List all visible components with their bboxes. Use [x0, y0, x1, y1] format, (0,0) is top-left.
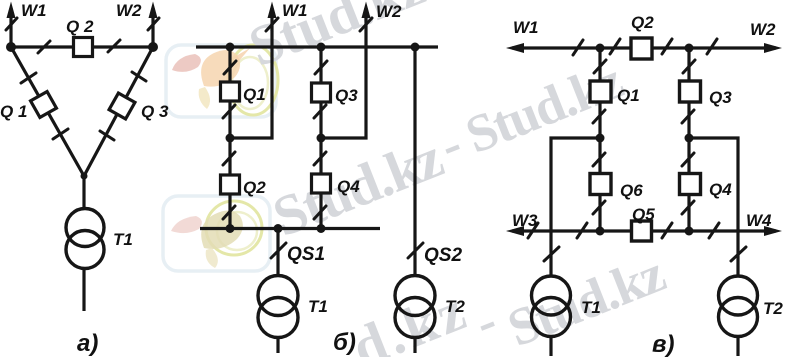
svg-text:Q5: Q5	[632, 205, 655, 224]
arrowhead W1 a	[7, 2, 16, 19]
wire W2 line b	[321, 8, 366, 138]
disconnector slash W2 riser b	[360, 18, 372, 31]
disconnector slash top tie left	[38, 41, 50, 53]
disconnector slash above Q1 v	[594, 60, 606, 73]
disconnector QS2 slash	[408, 243, 423, 258]
node v bottom Q6	[596, 227, 605, 236]
svg-text:T1: T1	[581, 298, 601, 317]
disconnector slash above Q3 b	[315, 61, 327, 74]
svg-text:Q3: Q3	[335, 86, 358, 105]
breaker Q2 b	[221, 175, 240, 194]
disconnector slash top v 3	[662, 39, 672, 54]
wire top bus b	[196, 45, 438, 48]
node a left corner	[6, 42, 16, 52]
wire T2 tail v	[736, 336, 739, 356]
svg-text:QS1: QS1	[287, 244, 325, 265]
disconnector slash above Q2 b	[223, 152, 235, 165]
breaker Q1 b	[221, 82, 240, 101]
arrowhead W1 b	[268, 2, 277, 19]
svg-text:d.kz: d.kz	[344, 278, 478, 357]
disconnector slash top v 2	[610, 39, 620, 54]
svg-text:-: -	[467, 292, 505, 352]
disconnector slash above Q4 v	[682, 153, 694, 166]
disconnector QS1 slash	[271, 243, 286, 258]
svg-text:W1: W1	[21, 1, 47, 20]
svg-text:Q6: Q6	[620, 181, 643, 200]
disconnector slash left diagonal upper	[21, 73, 36, 83]
breaker Q6 v	[590, 174, 611, 195]
watermark logo 1	[166, 45, 278, 117]
disconnector slash bottom v 1	[528, 223, 538, 238]
breaker Q3 a	[109, 93, 135, 119]
disconnector slash below Q3 b	[314, 105, 326, 118]
node v top Q3	[685, 44, 694, 53]
wire Q3Q4 branch v	[687, 48, 690, 231]
arrowhead W1 v	[506, 43, 524, 53]
breaker Q5 v	[632, 221, 652, 241]
svg-text:T2: T2	[763, 299, 783, 318]
wire T1 tail v	[549, 336, 552, 356]
disconnector slash above Q4 b	[314, 152, 326, 165]
breaker Q4 v	[680, 174, 701, 195]
disconnector slash below Q1 b	[223, 105, 235, 118]
disconnector slash bottom v 3	[662, 223, 672, 238]
transformer T1 b	[258, 276, 298, 338]
disconnector slash left diagonal lower	[53, 129, 68, 139]
wire Q3Q4 branch b	[319, 47, 322, 228]
svg-text:W2: W2	[750, 20, 776, 39]
svg-text:W4: W4	[746, 211, 772, 230]
disconnector slash below Q4 b	[314, 206, 326, 219]
svg-text:T1: T1	[113, 230, 133, 249]
disconnector slash on W1 riser	[6, 18, 17, 30]
wire top tie a	[11, 45, 153, 48]
node b bottom bus T1 feeder	[274, 224, 283, 233]
svg-text:W1: W1	[282, 1, 308, 20]
node v bottom Q4	[685, 227, 694, 236]
disconnector slash above Q1 b	[224, 61, 236, 74]
disconnector slash W1 riser b	[266, 18, 278, 31]
svg-text:Q 1: Q 1	[0, 102, 27, 121]
node b bus Q3	[317, 43, 326, 52]
svg-text:W1: W1	[513, 18, 539, 37]
svg-text:Q3: Q3	[709, 88, 732, 107]
svg-text:W3: W3	[512, 211, 538, 230]
disconnector slash below Q4 v	[682, 201, 694, 214]
node b lower Q4	[317, 224, 326, 233]
disconnector slash below Q2 b	[223, 206, 235, 219]
breaker Q2 a	[74, 38, 93, 57]
node v mid Q3	[685, 134, 694, 143]
wire bottom line v	[512, 229, 776, 232]
arrowhead W2 a	[149, 2, 158, 19]
breaker Q3 v	[680, 81, 701, 102]
svg-text:Q 3: Q 3	[141, 102, 169, 121]
wire top line v	[512, 46, 776, 49]
disconnector slash right diagonal upper	[132, 72, 146, 81]
disconnector slash T1 drop v	[544, 247, 559, 261]
disconnector slash top tie right	[108, 40, 120, 52]
disconnector slash above Q3 v	[683, 60, 695, 73]
wire T2 tap v	[689, 138, 738, 277]
wire W1 riser	[9, 8, 12, 47]
wire vertex to transformer	[82, 176, 85, 210]
wire bottom bus b	[200, 227, 380, 230]
disconnector slash above Q6 v	[593, 153, 605, 166]
svg-text:W2: W2	[116, 1, 142, 20]
svg-text:W2: W2	[376, 2, 402, 21]
svg-text:T2: T2	[445, 297, 465, 316]
node b mid Q1	[226, 134, 235, 143]
disconnector slash below Q3 v	[682, 110, 694, 123]
svg-text:в): в)	[652, 331, 675, 357]
node v mid Q1	[596, 134, 605, 143]
node b bus T2	[411, 43, 420, 52]
svg-text:а): а)	[77, 330, 98, 357]
disconnector slash top v 4	[707, 39, 717, 54]
disconnector slash top v 1	[573, 40, 583, 55]
breaker Q1 a	[31, 92, 57, 118]
svg-text:Q2: Q2	[243, 178, 266, 197]
breaker Q2 v	[631, 38, 652, 59]
disconnector slash T2 drop v	[731, 247, 746, 261]
arrowhead W3 v	[506, 226, 524, 236]
node b bus Q1	[226, 43, 235, 52]
disconnector slash below Q6 v	[593, 201, 605, 214]
svg-text:T1: T1	[308, 297, 328, 316]
node b lower Q2	[226, 224, 235, 233]
arrowhead W4 v	[764, 226, 782, 236]
svg-text:б): б)	[333, 329, 356, 356]
wire T1 tap v	[551, 138, 600, 277]
transformer T1 a	[66, 209, 104, 269]
wire T1 feeder b	[276, 229, 279, 278]
node v top Q1	[596, 44, 605, 53]
wire right diagonal a	[84, 47, 153, 176]
disconnector slash bottom v 4	[709, 223, 719, 238]
disconnector slash right diagonal lower	[100, 131, 114, 140]
transformer T2 v	[719, 276, 758, 337]
wire T2 feeder b	[413, 47, 416, 277]
arrowhead W2 v	[764, 43, 782, 53]
svg-text:Q1: Q1	[243, 85, 266, 104]
disconnector slash below Q1 v	[593, 110, 605, 123]
arrowhead W2 b	[362, 2, 371, 19]
transformer T1 v	[532, 276, 571, 337]
svg-text:Q4: Q4	[709, 180, 732, 199]
transformer T2 b	[395, 276, 435, 338]
disconnector slash on W2 riser	[148, 18, 159, 30]
wire W1 line b	[230, 8, 272, 138]
wire T1 tail b	[276, 336, 279, 353]
wire tail T1 a	[82, 268, 85, 311]
wire W2 riser	[151, 8, 154, 47]
node b mid Q3	[317, 134, 326, 143]
svg-text:Q2: Q2	[631, 13, 654, 32]
svg-text:Q4: Q4	[337, 177, 360, 196]
wire T2 tail b	[413, 336, 416, 353]
watermark logo 2	[163, 196, 270, 271]
svg-text:Q 2: Q 2	[66, 17, 94, 36]
node a right corner	[148, 42, 158, 52]
wire Q1Q2 branch b	[228, 47, 231, 228]
breaker Q4 b	[312, 174, 331, 193]
wire left diagonal a	[11, 47, 84, 176]
svg-text:Q1: Q1	[617, 86, 640, 105]
svg-text:QS2: QS2	[424, 245, 462, 266]
wire Q1Q6 branch v	[598, 48, 601, 231]
node a vertex	[81, 173, 88, 180]
breaker Q1 v	[590, 81, 611, 102]
disconnector slash bottom v 2	[577, 223, 587, 238]
breaker Q3 b	[312, 83, 331, 102]
